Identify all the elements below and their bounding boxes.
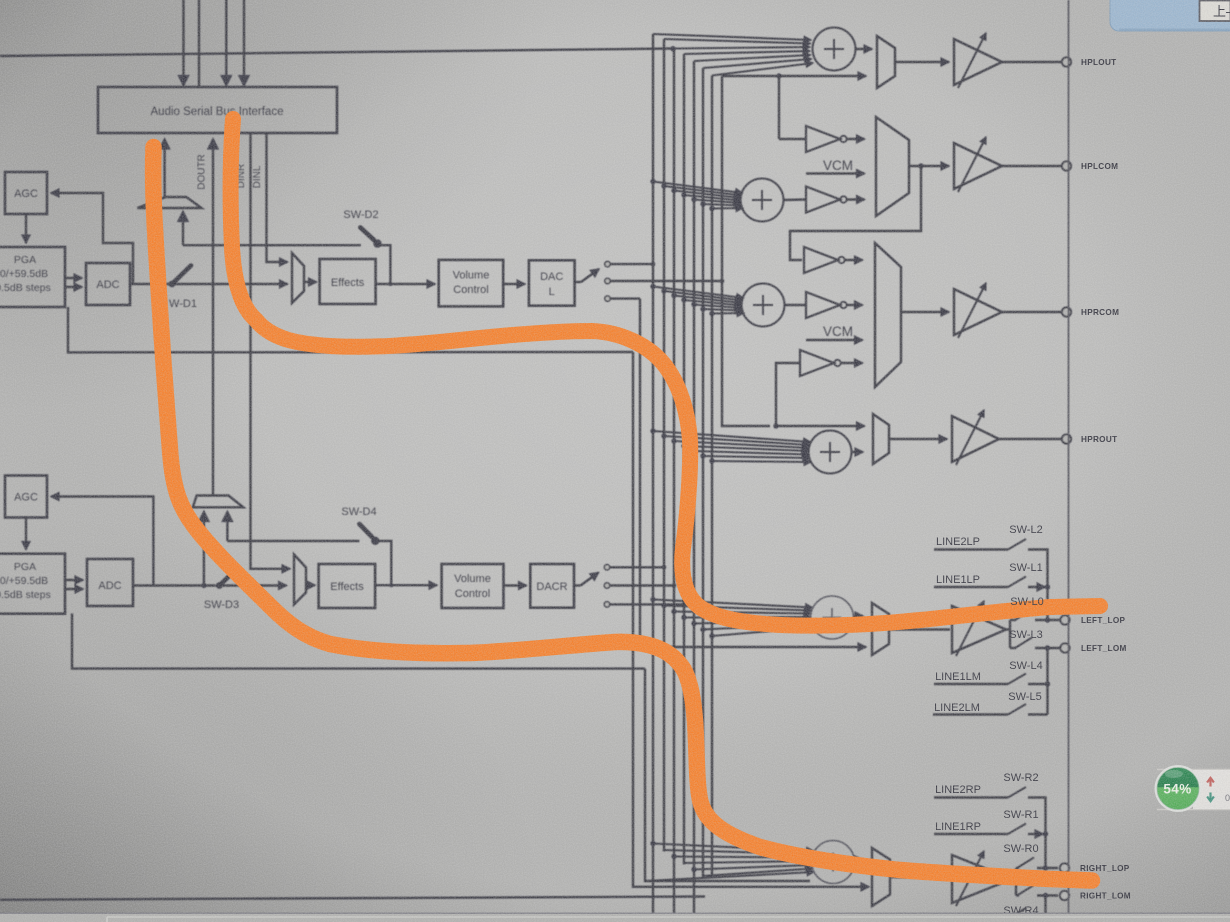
box AGC1: [5, 172, 47, 214]
wire Effects1 out: [376, 283, 435, 285]
box DACR: [530, 564, 574, 608]
wire SW-D4 feedback arrow into funnel2: [226, 512, 228, 542]
wire mux4 select feed: [776, 425, 865, 427]
panel zoom control: [1157, 770, 1230, 810]
inverter A2a: [779, 76, 865, 152]
wire SW-D3 to mux2: [222, 584, 287, 586]
box PGA1: [0, 247, 65, 307]
icon up arrow: [1207, 778, 1214, 787]
inverter A2b: [806, 187, 865, 213]
wire MCLK into U1: [243, 0, 245, 86]
wire bus vertical v684: [683, 54, 685, 865]
amp RIGHT_LO driver: [952, 851, 1012, 906]
wire bus vertical v674: [673, 49, 675, 916]
wire AGC1 tap: [51, 193, 133, 284]
wire VC1 to DACL: [503, 283, 525, 285]
wire BCLK into U1: [225, 0, 227, 86]
wire LINE2LM / switch SW-L5: [933, 704, 1048, 715]
pin LEFT_LOM: [1060, 643, 1069, 652]
wire row5 bundle: [650, 597, 813, 639]
wire ADC1 out: [130, 283, 169, 285]
wire row6 bundle: [645, 841, 814, 881]
amp HPRCOM driver: [954, 283, 1002, 338]
wire PGA1 to ADC1 pair: [65, 277, 82, 279]
wire bottom boundary net: [0, 897, 705, 900]
wire VCM row2: [806, 172, 865, 174]
switch SW-L3: [1010, 638, 1060, 649]
wire DINL vertical: [267, 133, 288, 262]
box ADC1: [86, 263, 130, 305]
wire mux4 out: [889, 438, 947, 440]
wire row1 mux second input: [722, 75, 866, 77]
wire to HPROUT pin: [999, 438, 1062, 440]
pin HPLCOM: [1062, 161, 1071, 170]
funnel left channel: [138, 197, 202, 208]
wire VC2 to DACR: [504, 584, 527, 586]
switch SW-R0: [1016, 858, 1058, 869]
switch SW-R3: [1016, 885, 1058, 896]
wire mux6 out: [890, 877, 950, 878]
wire mux3 out: [901, 311, 949, 313]
wire LINE2LP / switch SW-L2: [934, 539, 1050, 623]
wire bus vertical v694: [693, 61, 695, 915]
wire DACL t1 to bus: [610, 263, 653, 265]
mux HPLOUT: [877, 36, 895, 88]
icon down arrow: [1207, 793, 1214, 802]
mux LEFT_LO: [872, 603, 889, 655]
wire DINR vertical: [251, 133, 291, 569]
pin LEFT_LOP: [1060, 615, 1069, 624]
wire S4 to mux4: [852, 451, 864, 453]
wire bus vertical v712: [711, 76, 713, 877]
wire M2 out: [306, 584, 315, 586]
switch DACR selector: [574, 573, 599, 586]
wire long top net: [0, 49, 673, 57]
wire S6 to mux6: [855, 859, 864, 861]
wire LINE1RM / switch SW-R4: [934, 893, 1048, 922]
wire bus vertical v633: [633, 352, 869, 887]
wire S3 to inverter A3b: [785, 304, 807, 306]
mux M2 right-channel input mux: [294, 555, 306, 605]
pin RIGHT_LOM: [1060, 891, 1069, 900]
wire S2 to inverter A2b: [784, 198, 807, 201]
wire Effects2 out: [375, 584, 437, 586]
wire row2 bundle: [650, 179, 743, 211]
wire marker stroke A: [153, 147, 1092, 881]
wire AGC2 to PGA2: [25, 518, 27, 550]
switch DACL selector: [575, 269, 599, 282]
pin HPLOUT: [1062, 57, 1071, 66]
wire S1 to mux1r: [856, 48, 873, 50]
wire RIGHT_LO splits: [1012, 878, 1016, 880]
wire bus vertical v640: [640, 299, 866, 647]
wire mux2 out: [909, 165, 949, 167]
summing node S1: [813, 28, 856, 71]
wire DACR t1 to bus: [610, 566, 664, 568]
wire LINE1RP / switch SW-R1: [934, 824, 1048, 837]
summing node S5: [811, 596, 854, 639]
wire LINE2RP / switch SW-R2: [934, 787, 1048, 871]
badge 54%: [1155, 765, 1202, 812]
box Effects1: [320, 259, 376, 304]
wire output rail: [1068, 0, 1070, 922]
inverter A3a: [804, 247, 863, 273]
wire bus vertical v664: [663, 39, 665, 852]
box AGC2: [5, 476, 47, 518]
summing node S6: [812, 841, 855, 884]
box DACL: [529, 260, 575, 305]
box PGA2: [0, 554, 65, 614]
wire AGC2 tap: [51, 497, 153, 586]
wire DACL t3 to bus: [610, 297, 640, 299]
wire bus vertical v645: [645, 669, 810, 881]
summing node S2: [741, 179, 784, 222]
wire DOUTR vertical: [212, 139, 214, 496]
wire PGA1 bypass net: [68, 307, 633, 352]
wire M1 out: [304, 281, 317, 283]
wire LEFT_LO splits: [1006, 628, 1010, 630]
wire S5 to mux5: [854, 615, 864, 617]
wire marker stroke B: [231, 119, 1100, 626]
wire row3 bundle: [650, 284, 744, 316]
wire DOUTL up into U1: [163, 139, 165, 197]
wire SW-D2 feedback arrow into funnel: [182, 212, 184, 246]
inverter A3b: [806, 292, 863, 318]
wire W-D1 to mux: [175, 283, 288, 285]
box U1 Audio Serial Bus Interface: [98, 87, 337, 133]
switch W-D1: [169, 266, 191, 288]
wire LINE1LP / switch SW-L1: [934, 577, 1050, 590]
switch SW-D4: [359, 524, 391, 585]
toolbar fragment top right: [1110, 0, 1230, 31]
mux HPROUT: [873, 414, 889, 464]
wire SW-D4 horizontal net: [227, 540, 359, 542]
wire bus vertical v653: [652, 34, 654, 915]
wire bus vertical v722: [722, 76, 770, 426]
wire VCM row3: [806, 339, 863, 341]
wire to HPRCOM pin: [1002, 311, 1062, 313]
wire SCLK into U1: [182, 0, 184, 86]
mux HPRCOM: [875, 243, 901, 387]
wire ADC2 out: [133, 584, 216, 586]
amp HPLCOM driver: [954, 137, 1002, 192]
wire mux1r out: [895, 61, 949, 63]
wire LINE1LM / switch SW-L4: [934, 645, 1050, 714]
wire DACR t3 to bus: [610, 603, 684, 605]
wire DACR t2 to bus: [610, 584, 674, 586]
bottom window edge strip: [0, 913, 1230, 922]
pin HPROUT: [1062, 434, 1071, 443]
mux RIGHT_LO: [872, 848, 890, 906]
summing node S4: [809, 431, 852, 474]
wire row4 bundle: [650, 428, 811, 463]
switch SW-D2: [360, 227, 390, 284]
wire bus vertical v703: [702, 68, 704, 878]
wire row1 fan: [653, 34, 813, 76]
amp HPLOUT driver: [954, 33, 1002, 88]
box Effects2: [319, 564, 376, 608]
button prev page: [1200, 1, 1230, 22]
wire funnel2 feed arrow: [203, 512, 205, 586]
mux HPLCOM: [876, 117, 909, 216]
wire PGA2 to ADC2 pair: [65, 579, 83, 581]
box VolumeControl2: [442, 564, 504, 608]
summing node S3: [742, 284, 785, 327]
amp HPROUT driver: [952, 410, 999, 465]
inverter A3c: [776, 350, 863, 426]
switch SW-D3: [216, 569, 237, 589]
node funnel2 feed: [201, 583, 206, 588]
pin RIGHT_LOP: [1060, 863, 1069, 872]
wire AGC1 to PGA1: [25, 214, 27, 243]
mux M1 left-channel input mux: [292, 253, 304, 303]
wire SW-D2 horizontal net: [183, 244, 361, 246]
box ADC2: [87, 559, 133, 606]
pin HPRCOM: [1062, 307, 1071, 316]
wire row3 tap from row2 output: [790, 163, 924, 260]
funnel right channel: [193, 496, 244, 508]
node DACL terminals: [605, 261, 610, 301]
wire to HPLOUT pin: [1002, 61, 1062, 63]
amp LEFT_LO driver: [952, 601, 1006, 656]
box VolumeControl1: [439, 260, 504, 307]
wire PGA2 bypass net: [72, 613, 645, 668]
wire DACL t2 to bus: [610, 280, 722, 282]
switch SW-L0: [1010, 610, 1060, 621]
wire to HPLCOM pin: [1002, 165, 1062, 167]
wire WCLK into U1: [198, 0, 200, 87]
wire mux5 out: [889, 628, 950, 630]
node DACR terminals: [604, 565, 609, 608]
